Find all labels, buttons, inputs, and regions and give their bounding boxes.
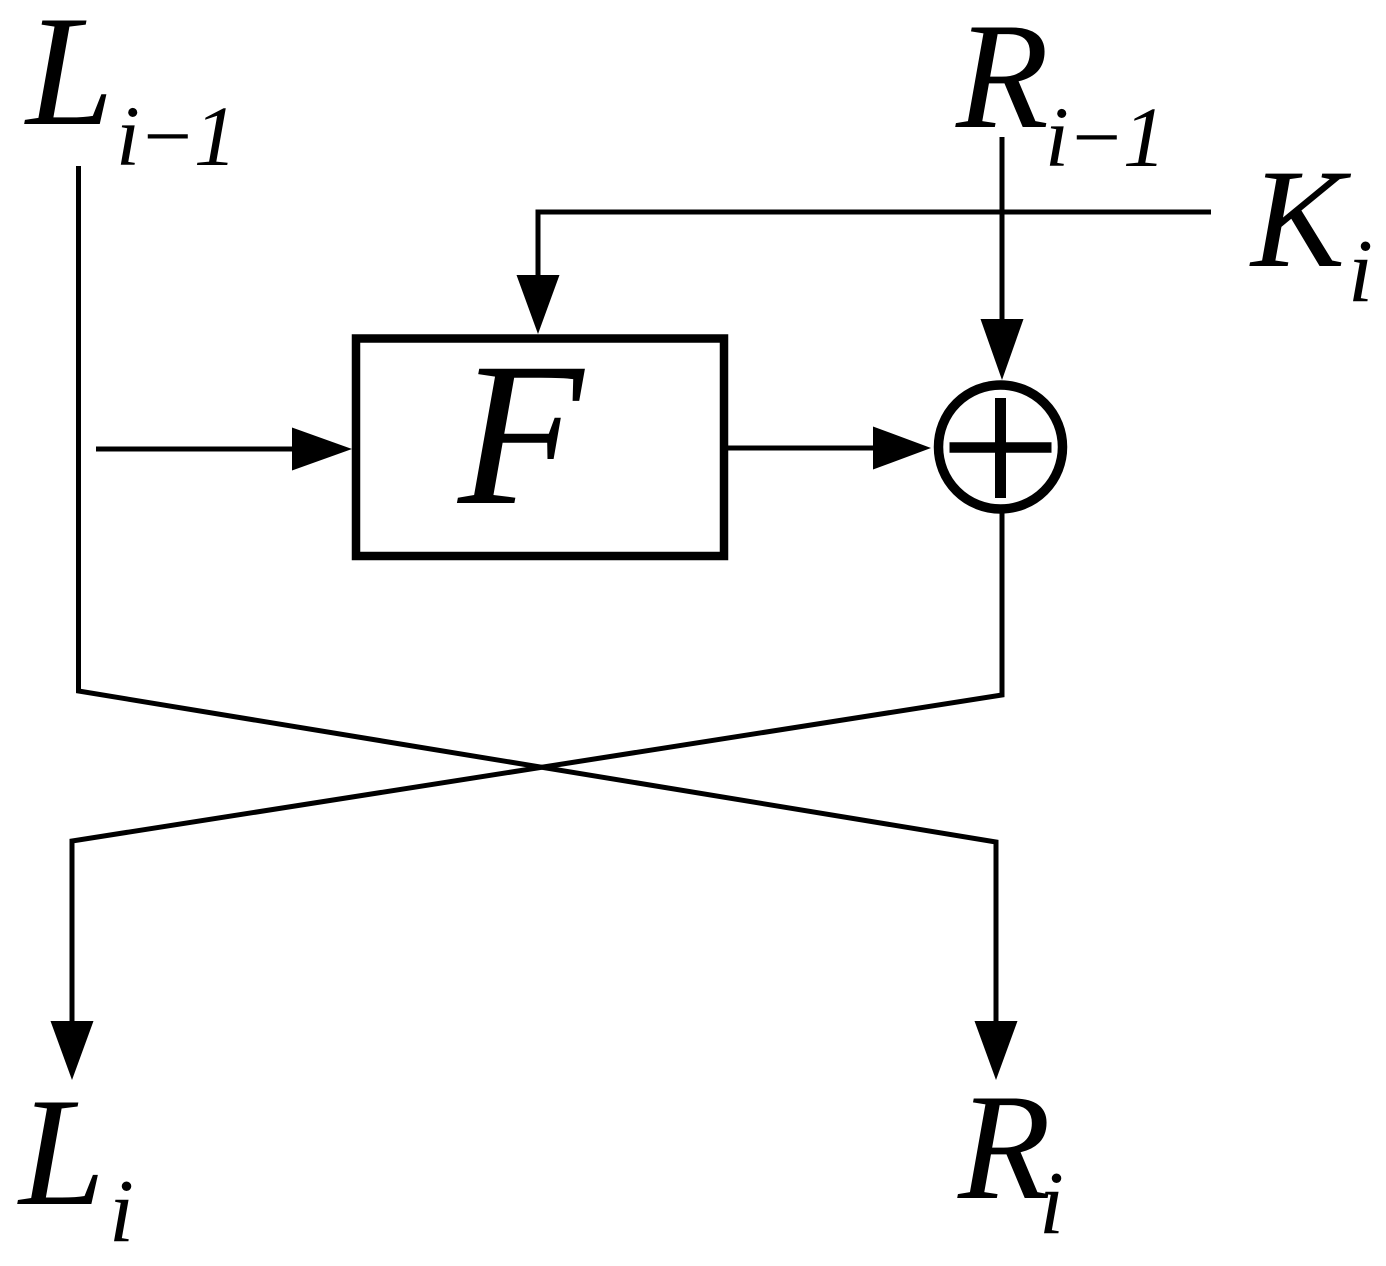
svg-text:L: L [17,1066,105,1238]
svg-text:F: F [456,321,585,548]
svg-text:i: i [1039,1154,1064,1253]
svg-text:i−1: i−1 [116,88,235,184]
svg-text:i: i [1348,222,1373,321]
svg-text:R: R [955,0,1049,160]
svg-text:i: i [109,1162,134,1261]
svg-text:K: K [1249,141,1352,297]
svg-text:R: R [957,1063,1051,1231]
svg-text:i−1: i−1 [1045,89,1164,185]
svg-text:L: L [24,0,114,159]
